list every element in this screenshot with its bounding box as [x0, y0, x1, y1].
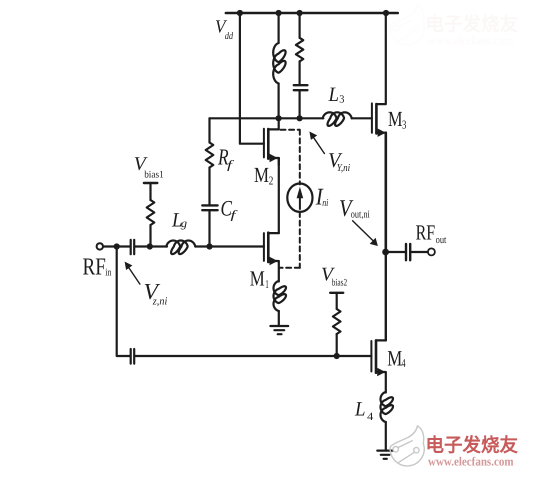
svg-text:2: 2	[269, 173, 274, 187]
inductor source degeneration (below M1) vertical coil	[274, 281, 286, 311]
transistor M3 drain lead	[376, 13, 385, 104]
dashed box right edge lower	[299, 212, 301, 268]
svg-text:M: M	[387, 345, 402, 370]
svg-text:in: in	[105, 267, 112, 278]
capacitor feedback plates	[131, 349, 135, 364]
node junction x=336.7 (Vbias2 tap)	[334, 353, 340, 359]
wire cap to L_g	[135, 245, 167, 247]
dashed box top edge	[281, 129, 300, 131]
wire feedback cap to M4 gate	[135, 355, 371, 357]
wire node line (VY node) horizontal	[210, 117, 324, 119]
node junction on rail x=299.6	[297, 10, 303, 16]
transistor M4 drain lead	[376, 339, 386, 341]
wire C_f down to input line	[208, 211, 210, 247]
transistor M3 gate bar	[371, 103, 373, 132]
transistor M1 gate bar	[263, 233, 265, 261]
svg-text:g: g	[181, 218, 188, 230]
node junction x=278.6 on node line	[276, 115, 282, 121]
transistor M1 source lead	[268, 261, 279, 282]
svg-text:bias2: bias2	[332, 277, 348, 288]
wire bottom feedback: input node down and right	[117, 247, 130, 357]
capacitor input coupling plates	[131, 240, 135, 254]
dashed box right edge upper	[299, 130, 301, 185]
svg-text:www.elecfans.com: www.elecfans.com	[428, 455, 514, 469]
svg-text:电子发烧友: 电子发烧友	[426, 14, 519, 36]
svg-text:4: 4	[401, 356, 405, 370]
wire Vdd top rail	[226, 12, 398, 15]
supply Vbias2 T-bar	[330, 292, 343, 294]
wire Vbias1 stem	[149, 183, 151, 200]
inductor (bias choke, unlabeled) vertical coil	[273, 43, 285, 84]
svg-text:dd: dd	[225, 31, 234, 42]
transistor M1 source arrow	[270, 257, 278, 265]
svg-text:M: M	[254, 163, 269, 187]
transistor M1 drain lead	[268, 232, 279, 234]
node junction on rail x=278.6	[276, 10, 282, 16]
svg-text:L: L	[354, 399, 365, 421]
wire resistor to input line	[149, 225, 151, 247]
capacitor (bypass, unlabeled) plates	[294, 85, 308, 90]
node junction Vout,ni	[382, 249, 389, 256]
svg-text:1: 1	[265, 277, 269, 291]
node junction on rail x=386	[383, 10, 389, 16]
node junction input x=116.7	[114, 243, 120, 249]
svg-text:f: f	[227, 158, 234, 172]
node junction on rail x=240	[237, 10, 243, 16]
watermark logo bottom right	[390, 426, 424, 466]
transistor M3 channel bar	[375, 104, 378, 133]
svg-text:电子发烧友: 电子发烧友	[426, 435, 519, 457]
svg-text:M: M	[388, 107, 403, 131]
wire Vout node to output cap	[386, 251, 406, 253]
resistor Vbias2 zigzag	[333, 309, 341, 334]
arrow annotation V_out,ni	[353, 221, 375, 242]
svg-text:Y,ni: Y,ni	[337, 163, 351, 174]
node junction x=299.6 on node line	[297, 115, 303, 121]
transistor M4 source arrow	[377, 368, 385, 376]
current source I_ni circle	[287, 184, 312, 212]
resistor R_f zigzag	[206, 143, 214, 168]
svg-text:out,ni: out,ni	[351, 210, 370, 221]
wire rail to M2 gate (down then right)	[240, 13, 264, 144]
watermark faint top right	[390, 5, 519, 48]
transistor M2 channel bar	[267, 129, 270, 159]
node junction x=149.6 (Vbias1 tap)	[147, 243, 153, 249]
wire resistor to M4 gate line	[336, 334, 338, 356]
svg-text:f: f	[231, 207, 238, 221]
port RF_in terminal circle	[97, 243, 103, 249]
ground (M1 source)	[270, 326, 288, 334]
transistor M2 source arrow	[270, 154, 278, 162]
transistor M3 source arrow	[378, 129, 386, 137]
svg-text:4: 4	[367, 411, 374, 423]
transistor M4 source lead	[376, 372, 386, 393]
wire R_f to C_f	[208, 168, 210, 205]
current source arrow (up)	[299, 192, 301, 209]
transistor M2 source lead	[268, 158, 279, 165]
svg-text:M: M	[250, 267, 265, 291]
transistor M2 drain lead	[268, 119, 278, 129]
wire inductor to node line	[278, 84, 280, 119]
wire RF_in to coupling cap	[103, 245, 130, 247]
svg-text:z,ni: z,ni	[152, 295, 167, 307]
svg-text:bias1: bias1	[144, 170, 164, 181]
svg-text:out: out	[436, 235, 447, 246]
dashed box bottom edge	[280, 267, 300, 269]
wire M3 source down to Vout node	[384, 133, 387, 252]
transistor M3 source lead	[376, 133, 385, 140]
wire coil to ground	[278, 311, 280, 326]
node junction x=209.5 (C_f tap)	[206, 243, 212, 249]
svg-text:RF: RF	[83, 254, 106, 281]
wire M2 source to M1 drain	[278, 158, 280, 233]
arrow annotation V_z,ni	[128, 266, 140, 284]
port RF_out terminal circle	[428, 248, 435, 255]
transistor M1 channel bar	[267, 233, 270, 262]
inductor L3 horizontal coil	[323, 112, 352, 126]
wire L4 to ground	[385, 422, 387, 450]
wire L3 to M3 gate	[352, 117, 372, 119]
wire R_f branch: node line down to resistor	[208, 118, 210, 142]
svg-text:3: 3	[339, 94, 345, 106]
inductor L_g horizontal coil	[166, 241, 195, 255]
resistor Vbias1 zigzag	[147, 200, 155, 225]
wire Vbias2 stem	[336, 293, 338, 309]
capacitor output coupling plates	[406, 244, 410, 260]
svg-text:L: L	[328, 84, 339, 106]
wire capacitor to node line	[299, 91, 301, 118]
transistor M4 channel bar	[375, 340, 378, 372]
ground (L4)	[377, 451, 393, 459]
capacitor C_f plates	[202, 205, 217, 210]
arrow annotation V_Y,ni	[312, 136, 324, 154]
wire Vout node down to M4 drain	[385, 252, 387, 340]
transistor M4 gate bar	[370, 341, 372, 372]
wire L_g to M1 gate	[195, 245, 264, 247]
inductor L4 vertical coil	[381, 392, 393, 422]
wire resistor to capacitor	[299, 61, 301, 84]
transistor M2 gate bar	[263, 129, 265, 158]
svg-text:3: 3	[402, 117, 406, 131]
resistor (bias, unlabeled) vertical zigzag	[296, 38, 303, 62]
supply Vbias1 T-bar	[144, 182, 157, 184]
wire rail down to resistor	[299, 13, 301, 38]
svg-text:ni: ni	[322, 198, 328, 209]
wire rail down to top inductor	[278, 13, 280, 43]
wire cap to RF_out port	[411, 251, 428, 253]
svg-text:RF: RF	[416, 220, 436, 244]
svg-text:www.elecfans.com: www.elecfans.com	[428, 34, 514, 48]
